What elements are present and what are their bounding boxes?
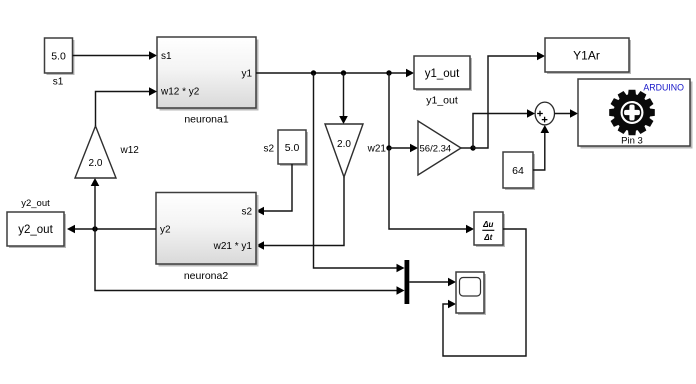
svg-text:s1: s1 xyxy=(53,77,64,88)
mux xyxy=(405,260,410,304)
gain block 2.0 (pointing down) xyxy=(325,124,363,177)
label y1_out xyxy=(426,95,458,107)
wire derivative output feedback to scope input 2 xyxy=(443,229,526,356)
svg-text:y2_out: y2_out xyxy=(18,224,53,236)
svg-text:5.0: 5.0 xyxy=(285,142,300,154)
wire y1 output to y1_out xyxy=(256,69,414,78)
svg-text:neurona2: neurona2 xyxy=(184,270,229,282)
node junction y2 xyxy=(92,226,97,231)
node w21 junction xyxy=(386,145,391,150)
svg-text:64: 64 xyxy=(512,165,524,177)
wire gain 2.0 down to neurona2 w21*y1 xyxy=(256,177,344,250)
svg-text:Δt: Δt xyxy=(483,233,492,242)
svg-text:56/2.34: 56/2.34 xyxy=(420,144,452,155)
svg-text:w12: w12 xyxy=(120,145,140,156)
svg-text:s1: s1 xyxy=(161,51,172,62)
svg-text:2.0: 2.0 xyxy=(89,158,103,169)
wire y1 branch to mux input 1 xyxy=(314,73,405,272)
node junction on y1 at x=314 xyxy=(311,70,316,75)
label s1 xyxy=(53,77,64,88)
svg-text:s2: s2 xyxy=(263,144,274,155)
svg-text:5.0: 5.0 xyxy=(51,51,66,63)
label s2 xyxy=(263,144,274,155)
svg-text:s2: s2 xyxy=(241,207,252,218)
label neurona1 xyxy=(184,114,229,126)
wire gain output to Y1Ar xyxy=(473,52,545,148)
svg-text:y1_out: y1_out xyxy=(426,95,458,107)
block Arduino PWM Pin 3 xyxy=(578,79,693,149)
constant 64 xyxy=(503,152,535,190)
node junction on y1 at x=343 xyxy=(341,70,346,75)
node gain output junction xyxy=(470,145,475,150)
label y2_out xyxy=(21,198,50,209)
svg-text:y2: y2 xyxy=(160,225,171,236)
wire gain output to sum xyxy=(473,109,535,148)
svg-text:y2_out: y2_out xyxy=(21,198,50,209)
wire sum to arduino xyxy=(555,109,579,118)
wire y2 output to y2_out xyxy=(67,225,156,234)
sum block U2 xyxy=(535,102,554,125)
constant s1 value 5.0 xyxy=(45,38,75,75)
wire gain output to node xyxy=(461,147,473,149)
icon arduino gear xyxy=(609,90,655,136)
gain block 56/2.34 xyxy=(418,121,461,175)
svg-text:2.0: 2.0 xyxy=(337,139,351,150)
subsystem neurona1 xyxy=(157,37,259,111)
wire y1 branch into gain 2.0 down xyxy=(339,73,348,124)
block Y1Ar xyxy=(545,38,631,74)
subsystem neurona2 xyxy=(156,193,259,267)
svg-text:neurona1: neurona1 xyxy=(184,114,229,126)
svg-text:Y1Ar: Y1Ar xyxy=(573,49,600,63)
svg-text:y1: y1 xyxy=(241,69,252,80)
svg-text:Pin 3: Pin 3 xyxy=(621,136,643,147)
node junction on y1 at x=389 xyxy=(386,70,391,75)
svg-text:ARDUINO: ARDUINO xyxy=(643,83,684,93)
wire s2 to neurona2 xyxy=(256,164,292,215)
svg-text:y1_out: y1_out xyxy=(425,68,460,80)
svg-text:w21 * y1: w21 * y1 xyxy=(213,241,253,252)
wire s1 to neurona1 xyxy=(73,51,158,60)
wire mux to scope input 1 xyxy=(409,278,456,287)
wire y1 branch down to w21 node xyxy=(388,73,390,148)
wire y2 branch to mux input 2 xyxy=(95,229,405,295)
svg-text:Δu: Δu xyxy=(482,220,493,229)
outport block y1_out xyxy=(414,56,472,91)
wire w21 to gain 56/2.34 xyxy=(389,144,418,153)
wire w12 to neurona1 input xyxy=(96,87,158,126)
svg-text:w12 * y2: w12 * y2 xyxy=(160,86,200,97)
outport block y2_out xyxy=(7,212,66,248)
gain block 2.0 (w12, pointing up) xyxy=(75,126,116,178)
derivative block du/dt xyxy=(474,212,505,247)
scope xyxy=(456,272,486,315)
wire y2 up into gain w12 xyxy=(91,178,100,229)
wire w21 down to derivative input xyxy=(389,148,474,233)
constant s2 value 5.0 xyxy=(278,130,308,166)
label w21 xyxy=(367,144,387,155)
label w12 xyxy=(120,145,140,156)
wire 64 to sum xyxy=(533,125,549,170)
svg-text:w21: w21 xyxy=(367,144,387,155)
label neurona2 xyxy=(184,270,229,282)
